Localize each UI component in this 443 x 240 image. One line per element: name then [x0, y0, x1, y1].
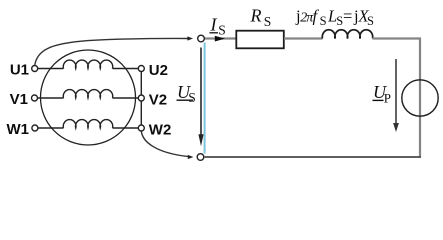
- wire: curve star point to bottom node: [141, 131, 188, 157]
- svg-text:U2: U2: [149, 62, 168, 79]
- cyan highlighted wire between nodes: [204, 43, 206, 154]
- arrowhead at top node: [187, 36, 193, 40]
- winding V (coil): [38, 90, 139, 98]
- voltage arrow U_S: [200, 48, 202, 136]
- svg-text:V2: V2: [149, 92, 167, 109]
- winding U (coil): [38, 60, 139, 68]
- wire: resistor to inductor: [284, 37, 323, 39]
- current arrow I_S: [215, 36, 225, 42]
- svg-text:S: S: [320, 14, 327, 28]
- star bar U2-V2-W2: [140, 72, 142, 126]
- terminal U2: [138, 66, 144, 72]
- svg-text:W1: W1: [7, 121, 30, 138]
- svg-text:I: I: [210, 15, 218, 35]
- svg-text:S: S: [264, 14, 272, 29]
- svg-text:=: =: [343, 7, 352, 26]
- top node: [198, 35, 205, 42]
- voltage arrow U_P: [395, 59, 397, 124]
- terminal U1: [32, 66, 38, 72]
- bottom return wire: [205, 156, 421, 158]
- svg-text:S: S: [367, 14, 374, 28]
- resistor R_S: [236, 31, 283, 49]
- terminal W2: [138, 125, 144, 131]
- winding W (coil): [38, 120, 139, 128]
- svg-text:W2: W2: [149, 122, 172, 139]
- wire: inductor to top-right corner, down right side: [373, 39, 421, 157]
- bottom node: [197, 154, 204, 161]
- svg-text:S: S: [218, 23, 226, 38]
- wire: top node to resistor: [205, 37, 236, 39]
- terminal V1: [32, 95, 38, 101]
- svg-text:U1: U1: [10, 62, 29, 79]
- wire: curve U1 to top node: [35, 38, 189, 65]
- terminal W1: [32, 125, 38, 131]
- label j2pifsLs = jXs: [295, 7, 374, 29]
- svg-text:V1: V1: [10, 91, 28, 108]
- svg-text:R: R: [250, 5, 262, 25]
- stator circle (motor): [41, 50, 136, 145]
- arrowhead at bottom node: [188, 155, 194, 159]
- source circle U_P: [402, 80, 438, 116]
- svg-text:S: S: [188, 90, 196, 105]
- inductor L_S coil: [322, 30, 372, 39]
- terminal V2: [138, 95, 144, 101]
- svg-text:P: P: [384, 91, 391, 106]
